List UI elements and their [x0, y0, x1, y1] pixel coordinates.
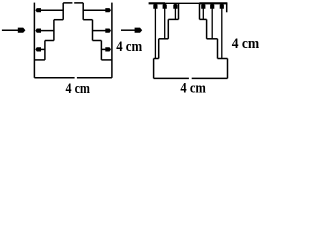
- standalone arrow A head: [18, 28, 26, 33]
- left figure: step3 left horizontal: [34, 59, 45, 61]
- left figure: bottom edge (with gap): [34, 77, 112, 79]
- left figure: left extension/side line: [33, 3, 35, 78]
- right figure: up arrow shaft 6: [221, 8, 223, 59]
- right figure: top line right hook: [226, 3, 228, 12]
- right figure: step1 left horizontal: [168, 18, 178, 20]
- right figure: step1 right horizontal: [200, 18, 207, 20]
- left figure: right extension/side line: [111, 3, 113, 78]
- right figure: tier3 left vertical: [158, 39, 160, 59]
- right figure: bottom right side vertical: [227, 59, 229, 79]
- right figure: bottom edge (with gap): [154, 77, 228, 79]
- left figure: arrow shaft row1 right: [83, 9, 107, 11]
- left figure: arrowhead row3 right: [105, 47, 111, 51]
- left figure: arrow shaft row2 left: [39, 30, 54, 32]
- right figure: up arrowhead 1: [153, 3, 157, 8]
- right figure: up arrowhead 4: [201, 3, 205, 8]
- svg-text:4 cm: 4 cm: [116, 39, 142, 55]
- left figure: arrow shaft row3 right: [101, 48, 106, 50]
- left figure: arrowhead row1 right: [105, 8, 111, 12]
- left figure: tier1 left vertical: [62, 3, 64, 20]
- left figure: step3 right horizontal: [101, 59, 112, 61]
- right figure: step2 left horizontal: [159, 38, 169, 40]
- right figure: tier1 right vertical: [199, 3, 201, 19]
- left figure: tier3 right vertical: [100, 41, 102, 60]
- right figure: top extension line middle: [165, 2, 199, 4]
- right figure: up arrow shaft 3: [174, 8, 176, 19]
- svg-text:4 cm: 4 cm: [66, 81, 91, 96]
- right figure: up arrowhead 3: [173, 3, 177, 8]
- left figure: arrow shaft row3 left: [39, 48, 45, 50]
- right figure: top extension line: [149, 2, 165, 4]
- right figure: up arrowhead 2: [163, 3, 167, 8]
- svg-text:4 cm: 4 cm: [232, 36, 260, 52]
- left figure: arrow shaft row2 right: [93, 30, 107, 32]
- left figure: arrowhead row1 left: [35, 8, 41, 12]
- left figure: arrowhead row2 left: [35, 29, 41, 33]
- left figure: tier2 left vertical: [53, 20, 55, 41]
- standalone arrow B head: [135, 28, 143, 33]
- right figure: up arrowhead 6: [220, 3, 224, 8]
- right figure: bottom left side vertical: [153, 59, 155, 79]
- right figure: up arrow shaft 2: [164, 8, 166, 39]
- left figure: arrowhead row3 left: [35, 47, 41, 51]
- left figure: top edge (with center gap): [63, 2, 83, 4]
- right figure: tier1 left vertical: [178, 3, 180, 19]
- standalone arrow A shaft: [2, 29, 19, 31]
- standalone arrow B shaft: [121, 29, 136, 31]
- right figure: tier2 right vertical: [206, 19, 208, 38]
- left figure: tier2 right vertical: [92, 20, 94, 41]
- right figure: step3 right horizontal: [218, 58, 228, 60]
- left figure: tier1 right vertical: [82, 3, 84, 20]
- right figure: step2 right horizontal: [207, 38, 218, 40]
- right figure: top extension line right: [199, 2, 227, 4]
- right figure: up arrowhead 5: [210, 3, 214, 8]
- svg-text:4 cm: 4 cm: [180, 81, 206, 96]
- left figure: tier3 left vertical: [44, 41, 46, 60]
- left figure: arrow shaft row1 left: [39, 9, 63, 11]
- right figure: tier3 right vertical: [217, 39, 219, 59]
- right figure: tier2 left vertical: [167, 19, 169, 38]
- right figure: up arrow shaft 5: [211, 8, 213, 39]
- right figure: step3 left horizontal: [154, 58, 159, 60]
- left figure: step2 left horizontal: [45, 40, 54, 42]
- left figure: step2 right horizontal: [93, 40, 102, 42]
- left figure: step1 left horizontal: [54, 19, 63, 21]
- right figure: up arrow shaft 1: [154, 8, 156, 59]
- right figure: up arrow shaft 4: [202, 8, 204, 19]
- left figure: arrowhead row2 right: [105, 29, 111, 33]
- left figure: step1 right horizontal: [83, 19, 92, 21]
